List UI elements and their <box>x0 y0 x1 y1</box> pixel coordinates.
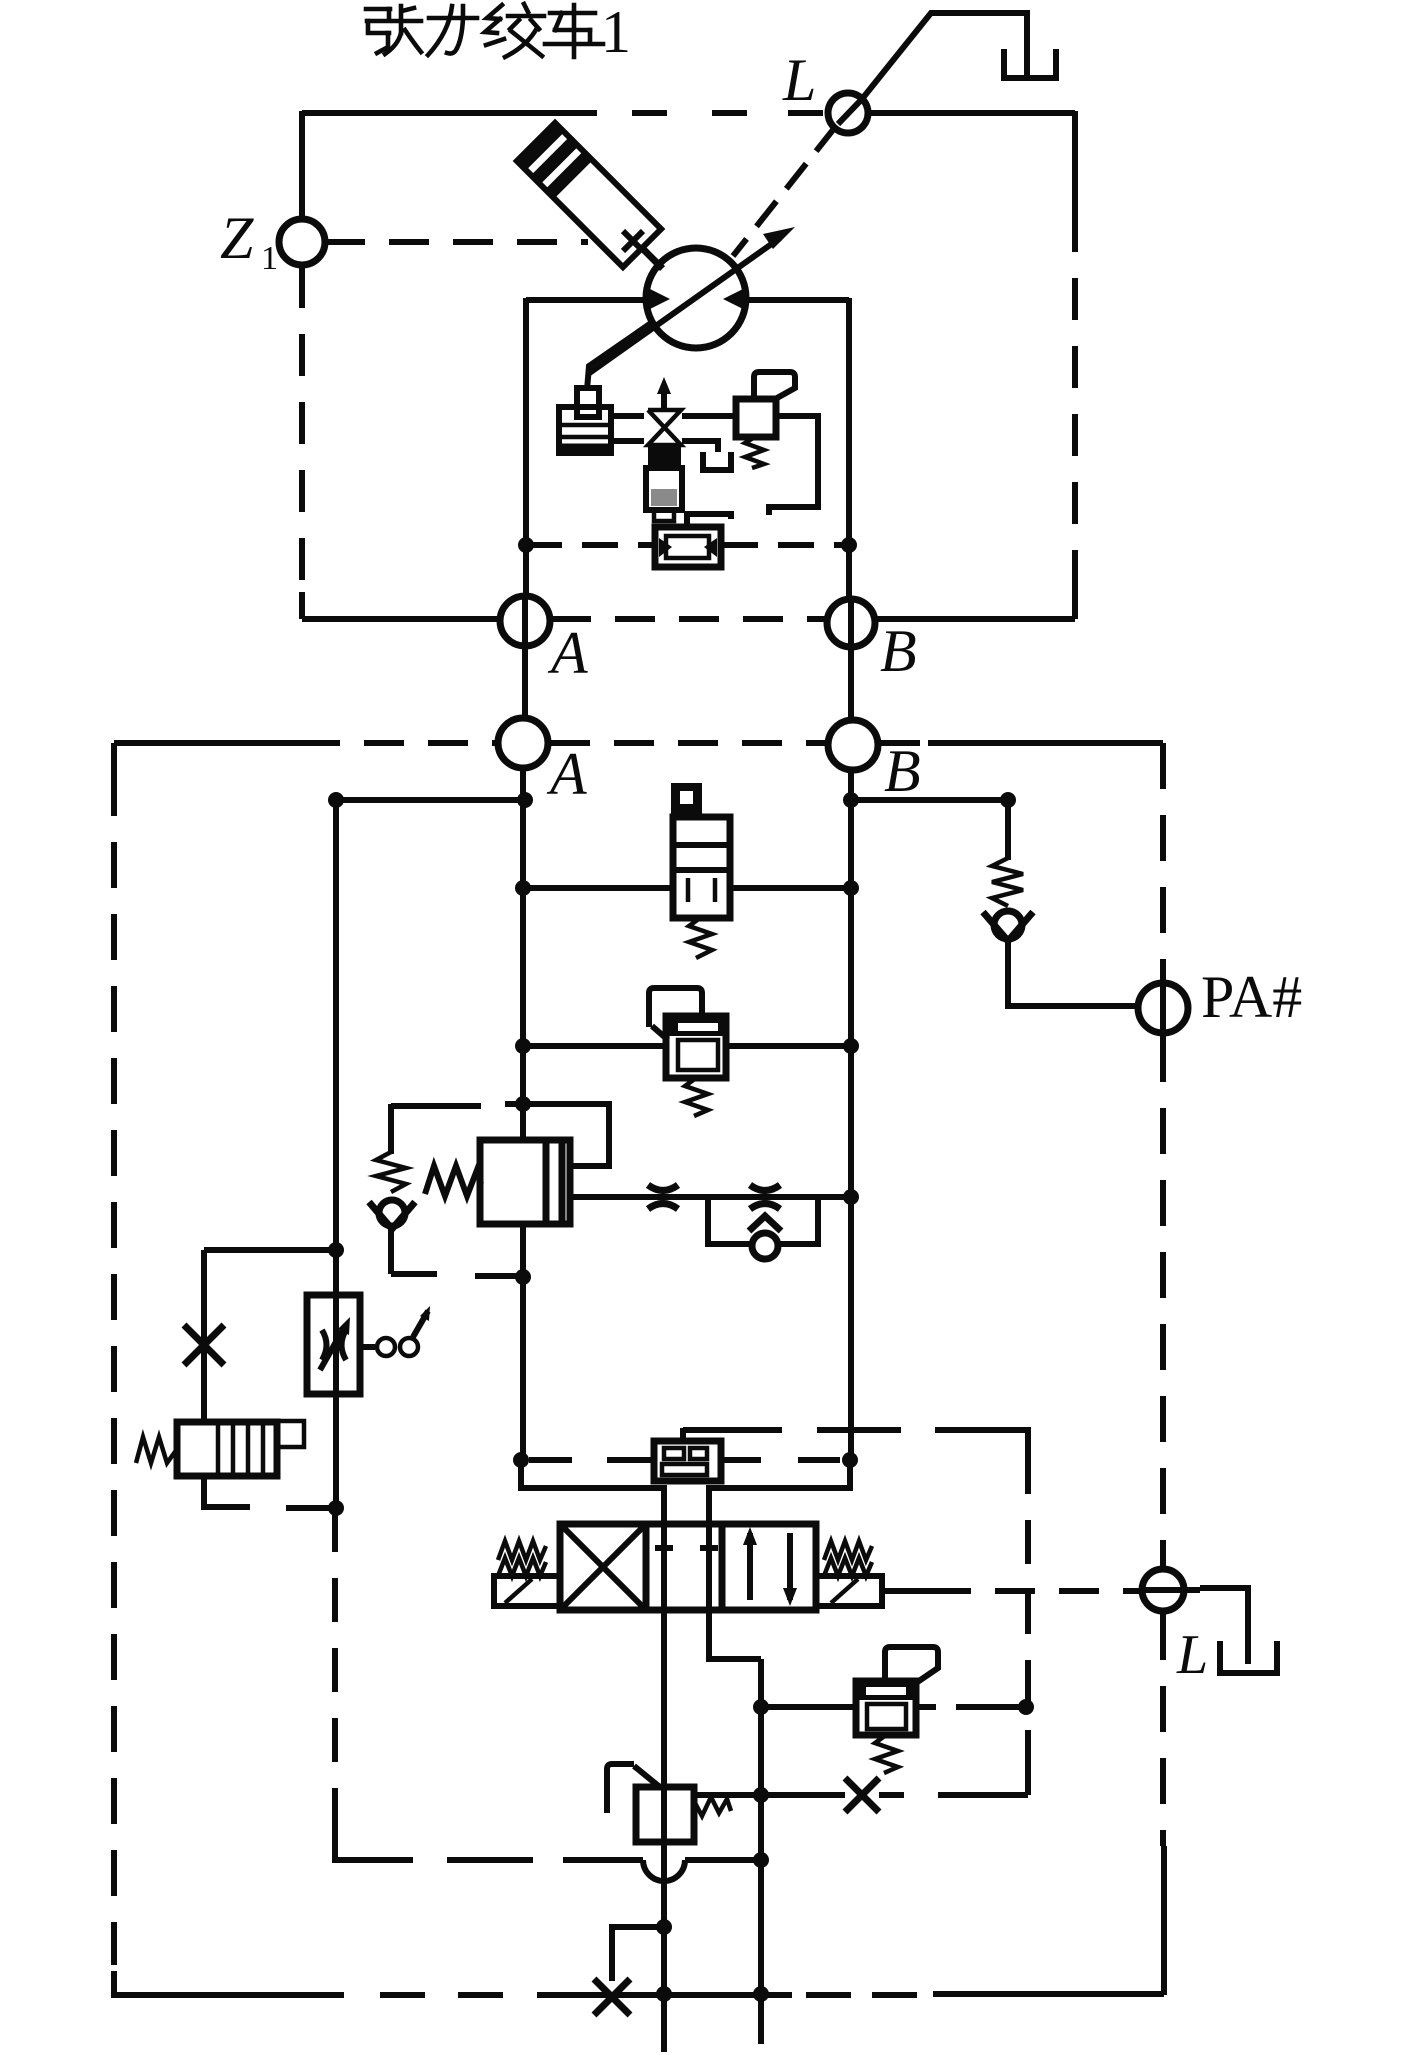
pilot group dashed box bottom edge <box>335 1857 533 1863</box>
pilot relief valve (top cluster) body <box>736 399 776 437</box>
svg-text:B: B <box>880 618 917 684</box>
drain line from L to tank (top right) <box>862 13 1027 99</box>
motor port arrow left <box>646 287 670 311</box>
inner control box top edge <box>526 297 849 303</box>
throttle X on drain <box>845 1778 879 1812</box>
inner control box right edge <box>846 298 852 598</box>
port PA# circle <box>1160 986 1166 1030</box>
svg-text:PA#: PA# <box>1201 964 1302 1030</box>
manifold enclosure bottom edge <box>114 1971 344 1995</box>
port A upper circle <box>500 596 550 646</box>
winch 1 enclosure right edge <box>1072 111 1078 210</box>
pilot relief spring <box>745 437 764 468</box>
dashed pilot line from L to motor arrow <box>733 126 836 256</box>
line cartridge to relief <box>682 413 736 419</box>
fixed orifice 1 <box>648 1185 678 1209</box>
directional valve center position ports <box>661 1524 667 1610</box>
brake shuttle box <box>655 527 721 567</box>
winch 1 enclosure (dashed box) top edge <box>302 110 597 116</box>
port L circle <box>828 93 868 133</box>
title char jiao <box>487 5 502 19</box>
balance valve check ball <box>379 1200 405 1226</box>
balance valve pilot loop left <box>391 1104 523 1106</box>
left branch vertical wire <box>201 1250 207 1424</box>
wire solenoid to L port <box>882 1588 931 1594</box>
pilot valve link line 1 <box>611 413 644 419</box>
servo cylinder (rotated) <box>517 123 682 288</box>
flow control valve body <box>307 1295 360 1394</box>
rod cross tick <box>623 231 643 251</box>
shuttle link lines <box>687 514 731 527</box>
drain to tank right <box>1200 1588 1248 1664</box>
wire: A node branch <box>336 797 525 803</box>
main wire below valve (P column) <box>661 1610 667 2052</box>
fixed orifice 2 <box>750 1185 780 1209</box>
motor port arrow right <box>723 287 747 311</box>
pilot solenoid drain wire <box>204 1476 336 1508</box>
check valve to PA: wire down <box>1005 800 1011 860</box>
solenoid left spring <box>498 1541 546 1560</box>
manifold enclosure top edge <box>114 740 300 746</box>
flow control arrow <box>320 1326 345 1370</box>
servo piston body <box>559 407 611 453</box>
balance valve lower wire <box>520 1224 526 1460</box>
pilot line from Z1 (dashed) <box>325 239 588 245</box>
title text: zhang li jiao che 1 (tension winch 1), hand-drawn strokes <box>366 4 603 57</box>
check valve ball and seat <box>994 911 1022 939</box>
wire T to relief R3 <box>761 1704 856 1710</box>
pilot relief flag <box>754 372 795 398</box>
solenoid right spring <box>824 1541 872 1560</box>
svg-text:L: L <box>1176 1624 1208 1686</box>
port L2 circle <box>1142 1569 1184 1611</box>
title char che <box>550 11 595 16</box>
port Z1 circle <box>279 219 325 265</box>
manifold enclosure right edge <box>1160 743 1166 980</box>
control cartridge valve: throttle hourglass <box>648 410 681 445</box>
svg-text:1: 1 <box>601 0 631 65</box>
balance valve check lower wire <box>388 1227 394 1274</box>
relief valve R3 pilot flag <box>885 1647 938 1683</box>
pilot group dashed box left edge <box>332 1508 338 1830</box>
solenoid left box <box>494 1576 560 1606</box>
hydraulic motor M1 circle <box>646 248 746 348</box>
relief valve R1 spring <box>689 918 712 958</box>
svg-text:B: B <box>884 738 921 804</box>
check valve spring <box>992 858 1023 906</box>
compensator indicator circles <box>377 1338 395 1356</box>
servo piston tower <box>577 388 599 417</box>
throttle branch wire y1197 <box>570 1194 851 1200</box>
svg-text:A: A <box>546 741 587 807</box>
pilot supply wire y1460 <box>529 1457 654 1463</box>
directional valve body <box>560 1524 816 1610</box>
inner control box left edge <box>523 298 529 596</box>
relief valve R3 spring <box>875 1735 898 1773</box>
winch 1 enclosure left edge <box>299 111 305 218</box>
drain elbow with small tank <box>682 441 718 452</box>
control cartridge valve body <box>648 446 681 468</box>
tank symbol right <box>1220 1641 1277 1673</box>
jog wire from valve to T column <box>709 1610 761 1659</box>
balance valve check spring <box>376 1152 406 1192</box>
shuttle valve S2 tab <box>680 1428 686 1443</box>
relief valve R2 pilot flag <box>649 988 702 1027</box>
flow control throttle arcs <box>322 1330 346 1360</box>
throttle X on left branch <box>184 1325 224 1365</box>
directional valve right position arrows <box>747 1533 753 1600</box>
pilot solenoid spring <box>136 1437 177 1463</box>
relief valve R2 spring <box>685 1078 708 1116</box>
pilot drop right <box>709 1460 850 1524</box>
motor shaft to servo piston <box>587 321 654 390</box>
control cartridge valve: up arrow <box>661 390 667 408</box>
crossover hop <box>643 1860 685 1881</box>
bypass to bottom edge <box>612 1927 664 1981</box>
title char li <box>429 16 477 21</box>
svg-text:L: L <box>782 47 816 113</box>
winch 1 enclosure bottom edge <box>302 616 499 622</box>
relief valve R1 pilot box <box>671 783 702 817</box>
drain loop right <box>769 416 818 515</box>
solenoid right box <box>816 1576 882 1606</box>
variable displacement arrow through motor <box>588 238 780 374</box>
pilot group dashed box top edge <box>683 1427 782 1433</box>
orifice bypass loop <box>708 1197 818 1244</box>
pilot group dashed box right edge <box>1010 1430 1028 1450</box>
wire: B node branch <box>851 797 1008 803</box>
main wire A column <box>520 768 526 1141</box>
svg-text:A: A <box>547 620 588 686</box>
balance valve pilot loop right <box>523 1104 609 1166</box>
manifold enclosure left edge <box>111 743 117 770</box>
left bypass wire column <box>333 800 339 1508</box>
cross branch wire y1046 <box>523 1043 851 1049</box>
port A lower circle <box>498 718 548 768</box>
relief valve R2 body <box>666 1016 726 1078</box>
pilot valve link line 2 <box>611 438 644 444</box>
wire check to PA# <box>1008 939 1140 1006</box>
main wire B column <box>848 770 854 1460</box>
directional valve left position X <box>563 1527 643 1607</box>
T column wire <box>758 1659 764 2044</box>
pilot drop left <box>521 1460 664 1524</box>
shuttle valve S2 box <box>654 1441 721 1481</box>
bypass check valve <box>752 1233 778 1259</box>
pressure reducing valve body <box>636 1787 694 1842</box>
balance valve top junction <box>515 1096 531 1112</box>
title char zhang <box>366 7 390 12</box>
wire A between boxes <box>522 598 528 718</box>
cross branch wire y888 <box>523 885 851 891</box>
svg-text:Z: Z <box>220 205 254 271</box>
balance valve body <box>480 1140 570 1224</box>
port B lower circle <box>828 720 878 770</box>
throttle X on bottom edge <box>594 1979 630 2015</box>
wire B between boxes <box>848 600 854 720</box>
relief valve R1 body <box>673 817 730 918</box>
svg-text:1: 1 <box>261 240 278 277</box>
balance valve spring <box>425 1166 481 1196</box>
port B upper circle <box>827 599 875 647</box>
drain wire with throttle y1795 <box>694 1792 1028 1798</box>
pressure reducing valve flag <box>607 1764 634 1813</box>
junction dots on brake line <box>518 537 534 553</box>
pilot solenoid valve body <box>177 1422 277 1476</box>
relief R3 outlet dashes <box>916 1704 1023 1710</box>
tank symbol top right <box>1004 49 1056 78</box>
pressure reducing valve spring right <box>694 1797 731 1816</box>
dashed brake line <box>526 542 654 548</box>
left branch cross wire <box>204 1247 336 1253</box>
relief valve R3 body <box>856 1681 916 1735</box>
